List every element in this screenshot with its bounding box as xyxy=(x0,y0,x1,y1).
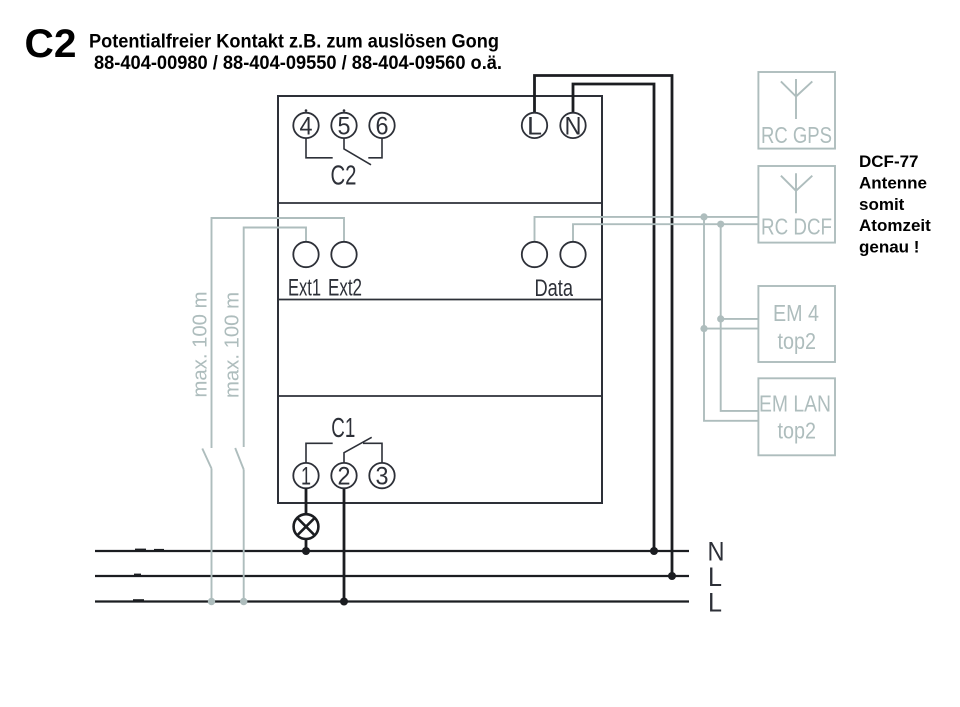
svg-text:Atomzeit: Atomzeit xyxy=(859,216,931,235)
terminal circle L xyxy=(522,113,547,138)
divider 1 xyxy=(278,202,602,204)
svg-text:RC DCF: RC DCF xyxy=(761,214,832,240)
tick mark on bus line L2 xyxy=(133,599,144,601)
lamp E1 xyxy=(294,514,319,539)
svg-text:genau !: genau ! xyxy=(859,237,919,256)
terminal circle 3 xyxy=(369,463,394,488)
svg-text:max. 100 m: max. 100 m xyxy=(222,292,244,398)
bus line L1 xyxy=(95,575,689,577)
wire gray branch B to EM 4 xyxy=(721,318,759,320)
switch C2 common wire from 5 and blade xyxy=(344,138,371,165)
svg-text:5: 5 xyxy=(338,112,351,140)
note DCF-77 Antenne xyxy=(859,152,931,256)
terminal circle N xyxy=(560,113,585,138)
box RC DCF xyxy=(758,166,835,243)
svg-text:max. 100 m: max. 100 m xyxy=(190,292,212,398)
svg-text:C2: C2 xyxy=(25,22,77,66)
divider 3 xyxy=(278,395,602,397)
junction dot terminal 2 L bus xyxy=(340,598,348,606)
svg-text:RC GPS: RC GPS xyxy=(761,122,832,148)
wire gray from left to Ext1 with switch break xyxy=(235,228,306,602)
svg-text:4: 4 xyxy=(300,112,313,140)
svg-text:2: 2 xyxy=(338,463,351,491)
svg-text:Antenne: Antenne xyxy=(859,174,927,193)
junction dot data wire A xyxy=(700,213,707,220)
box EM LAN top2 xyxy=(758,378,835,455)
divider 2 xyxy=(278,299,602,301)
wire N black xyxy=(573,84,654,551)
svg-text:L: L xyxy=(527,112,542,140)
switch C2 wire from 6 xyxy=(368,138,382,158)
svg-text:L: L xyxy=(708,587,722,617)
svg-text:DCF-77: DCF-77 xyxy=(859,152,919,171)
switch C1 wire from 1 xyxy=(306,443,333,463)
wire terminal 1 to lamp xyxy=(305,488,308,514)
svg-text:somit: somit xyxy=(859,195,905,214)
bus line L2 xyxy=(95,600,689,602)
terminal circle 6 xyxy=(369,113,394,138)
tick mark on bus line L1 xyxy=(134,574,141,576)
wire gray from left to Ext2 with switch break xyxy=(202,218,344,602)
junction dot L bus xyxy=(668,572,676,580)
svg-text:1: 1 xyxy=(301,463,311,491)
junction dot branch B xyxy=(717,315,724,322)
switch C2 wire from 4 xyxy=(306,138,333,158)
switch C1 common wire from 2 and blade xyxy=(344,437,372,463)
terminal circle 2 xyxy=(331,463,356,488)
junction gray dot left wire 1 xyxy=(208,598,215,605)
svg-text:C2: C2 xyxy=(331,160,357,191)
svg-text:3: 3 xyxy=(376,463,389,491)
svg-text:Potentialfreier Kontakt z.B. z: Potentialfreier Kontakt z.B. zum auslöse… xyxy=(89,32,499,53)
terminal circle Data1 xyxy=(522,242,547,267)
svg-text:88-404-00980 / 88-404-09550 /: 88-404-00980 / 88-404-09550 / 88-404-095… xyxy=(94,53,502,74)
bus line N xyxy=(95,550,689,552)
switch C1 wire from 3 xyxy=(363,443,382,463)
wire L black xyxy=(535,76,673,577)
terminal circle 5 xyxy=(331,113,356,138)
svg-text:top2: top2 xyxy=(778,418,817,444)
junction gray dot left wire 2 xyxy=(240,598,247,605)
box RC GPS xyxy=(758,72,835,149)
wire gray branch A to EM 4 xyxy=(704,328,758,330)
terminal circle Ext1 xyxy=(293,242,318,267)
nub on circle 4 xyxy=(305,109,308,112)
junction dot data wire B xyxy=(717,221,724,228)
svg-text:Data: Data xyxy=(535,275,574,302)
box EM 4 top2 xyxy=(758,286,835,362)
antenna symbol RC GPS xyxy=(781,79,812,119)
device box U1 xyxy=(278,96,602,503)
tick marks on bus line N xyxy=(135,549,146,551)
terminal circle Ext2 xyxy=(331,242,356,267)
svg-text:6: 6 xyxy=(376,112,389,140)
svg-text:C1: C1 xyxy=(331,412,355,443)
wire gray Data1 to RC DCF xyxy=(535,217,759,242)
svg-text:Ext2: Ext2 xyxy=(328,275,362,302)
junction dot N bus xyxy=(650,547,658,555)
svg-text:EM 4: EM 4 xyxy=(773,300,819,326)
junction dot branch A xyxy=(700,325,707,332)
terminal circle 4 xyxy=(293,113,318,138)
junction dot lamp N bus xyxy=(302,547,310,555)
antenna symbol RC DCF xyxy=(781,173,812,213)
wire terminal 2 to L bus xyxy=(343,488,346,601)
svg-text:N: N xyxy=(565,112,582,140)
wire gray vertical A to EM LAN xyxy=(704,217,758,421)
svg-text:EM LAN: EM LAN xyxy=(759,391,831,417)
nub on circle 5 xyxy=(343,109,346,112)
wire lamp to N bus xyxy=(305,539,308,551)
terminal circle 1 xyxy=(293,463,318,488)
terminal circle Data2 xyxy=(560,242,585,267)
svg-text:Ext1: Ext1 xyxy=(288,275,321,302)
wire gray vertical B to EM LAN xyxy=(721,224,759,411)
svg-text:top2: top2 xyxy=(778,328,817,354)
wire gray Data2 to RC DCF xyxy=(573,224,758,242)
